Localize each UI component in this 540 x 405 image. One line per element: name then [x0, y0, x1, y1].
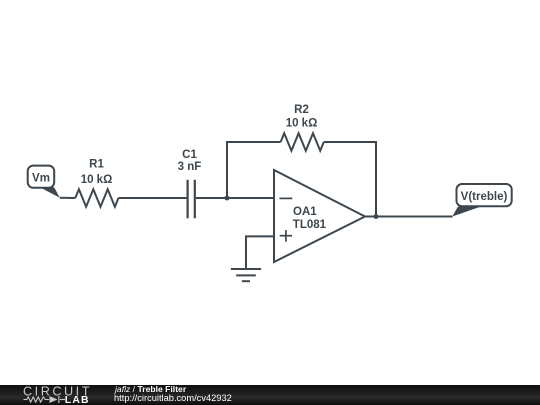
CircuitLab logo [0, 385, 110, 405]
terminal V(treble) [452, 184, 511, 217]
svg-text:OA1: OA1 [293, 206, 317, 218]
label R2 [286, 104, 318, 130]
resistor R2 [281, 133, 324, 150]
node junction at C1 / feedback [225, 196, 230, 201]
wire input from Vm to R1 [60, 197, 76, 199]
label R1 [81, 159, 113, 186]
footer bar [0, 385, 540, 405]
terminal Vm [28, 166, 60, 198]
op-amp plus symbol [280, 235, 292, 237]
svg-text:LAB: LAB [65, 395, 90, 405]
svg-text:TL081: TL081 [293, 219, 327, 231]
op-amp minus symbol [280, 197, 293, 199]
label OA1 TL081 [293, 206, 327, 231]
wire C1 to op-amp inverting input [196, 197, 274, 199]
wire feedback left vertical [227, 142, 281, 198]
svg-text:10 kΩ: 10 kΩ [81, 174, 113, 186]
svg-text:Vm: Vm [32, 173, 50, 185]
svg-text:10 kΩ: 10 kΩ [286, 117, 318, 129]
resistor R1 [75, 189, 118, 206]
svg-text:R2: R2 [294, 104, 309, 116]
svg-text:3 nF: 3 nF [178, 161, 202, 173]
svg-text:R1: R1 [89, 159, 104, 171]
wire R1 to C1 [119, 197, 187, 199]
wire feedback right vertical [324, 142, 376, 217]
svg-text:C1: C1 [182, 149, 197, 161]
label C1 [178, 149, 202, 173]
wire op-amp non-inverting input to ground [246, 236, 274, 268]
node junction at output [374, 214, 379, 219]
svg-text:V(treble): V(treble) [461, 191, 508, 203]
wire output [365, 216, 453, 218]
ground [231, 268, 261, 270]
op-amp OA1 triangle [274, 170, 365, 262]
capacitor C1 [187, 180, 189, 219]
